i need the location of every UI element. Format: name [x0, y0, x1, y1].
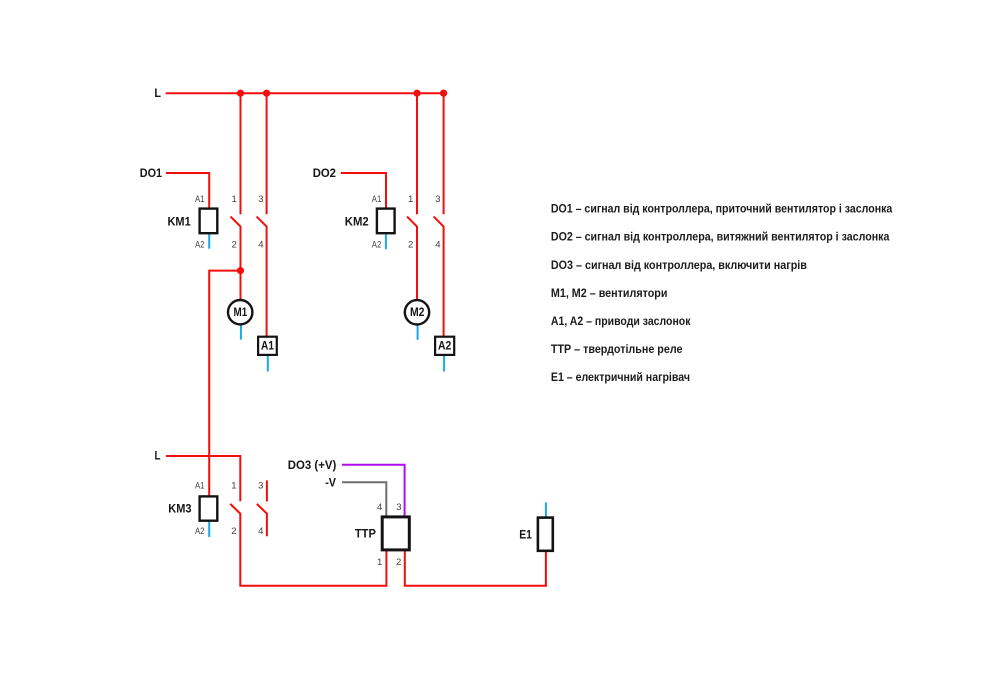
svg-text:A2: A2: [438, 338, 452, 352]
svg-text:4: 4: [258, 240, 263, 251]
svg-text:KM1: KM1: [168, 215, 191, 229]
svg-text:M2: M2: [410, 305, 425, 319]
svg-text:2: 2: [232, 240, 237, 251]
svg-text:A2: A2: [195, 240, 205, 251]
svg-text:2: 2: [408, 240, 413, 251]
svg-text:3: 3: [258, 194, 263, 205]
svg-text:KM2: KM2: [345, 215, 369, 229]
svg-text:3: 3: [435, 194, 440, 205]
svg-text:A2: A2: [372, 240, 382, 251]
svg-text:A2: A2: [195, 526, 205, 537]
svg-text:1: 1: [377, 557, 382, 568]
svg-text:M1: M1: [234, 305, 248, 319]
svg-text:3: 3: [258, 480, 263, 491]
svg-text:ТТР – твердотільне реле: ТТР – твердотільне реле: [551, 342, 683, 356]
svg-text:Е1: Е1: [519, 527, 532, 541]
svg-text:ТТР: ТТР: [355, 527, 376, 541]
svg-text:A1: A1: [372, 194, 382, 205]
svg-text:2: 2: [231, 526, 236, 537]
svg-text:4: 4: [377, 502, 382, 513]
svg-text:Е1 – електричний нагрівач: Е1 – електричний нагрівач: [551, 370, 690, 384]
svg-text:4: 4: [258, 526, 263, 537]
svg-text:L: L: [155, 448, 161, 462]
svg-text:DO1: DO1: [140, 166, 163, 180]
svg-text:1: 1: [231, 480, 236, 491]
svg-text:A1: A1: [195, 480, 205, 491]
svg-text:M1, M2 – вентилятори: M1, M2 – вентилятори: [551, 286, 668, 300]
svg-text:DO2: DO2: [313, 166, 337, 180]
svg-text:A1: A1: [261, 338, 274, 352]
svg-text:DO2 – сигнал від контроллера,: DO2 – сигнал від контроллера, витяжний в…: [551, 230, 890, 244]
svg-text:1: 1: [232, 194, 237, 205]
svg-text:2: 2: [396, 557, 401, 568]
svg-text:A1, A2 – приводи заслонок: A1, A2 – приводи заслонок: [551, 314, 691, 328]
svg-text:KM3: KM3: [168, 502, 191, 516]
svg-text:-V: -V: [325, 476, 336, 490]
svg-text:DO1 – сигнал від контроллера,: DO1 – сигнал від контроллера, приточний …: [551, 202, 893, 216]
svg-text:DO3 (+V): DO3 (+V): [288, 458, 337, 472]
svg-text:1: 1: [408, 194, 413, 205]
svg-text:DO3 – сигнал від контроллера,: DO3 – сигнал від контроллера, включити н…: [551, 258, 807, 272]
svg-text:L: L: [154, 86, 161, 100]
svg-text:3: 3: [396, 502, 401, 513]
svg-text:4: 4: [435, 240, 440, 251]
svg-text:A1: A1: [195, 194, 205, 205]
